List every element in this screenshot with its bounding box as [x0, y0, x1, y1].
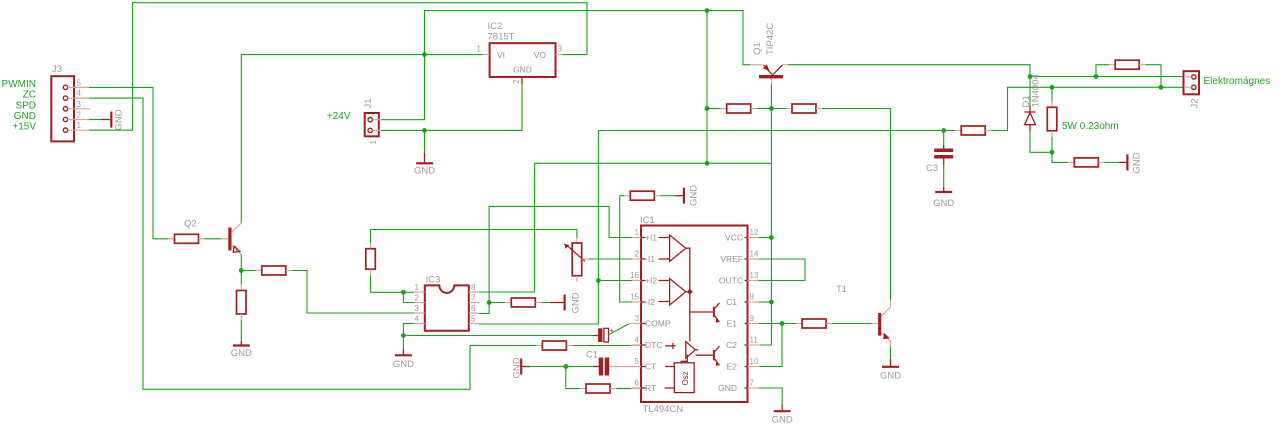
- connector J3: [51, 64, 90, 141]
- svg-text:4: 4: [635, 336, 640, 345]
- wire net A: divider top to trimmer top: [371, 230, 577, 239]
- junction bypass resistor right: [1159, 85, 1164, 90]
- IC1 internal output transistor 1: [713, 303, 720, 323]
- wire VCC to vertical: [759, 237, 772, 239]
- svg-text:GND: GND: [933, 198, 954, 209]
- resistor R (bypass): [1109, 60, 1145, 69]
- svg-text:GND: GND: [513, 65, 532, 75]
- svg-text:GND: GND: [231, 348, 252, 359]
- wire resistor row left: [707, 108, 721, 110]
- IC IC1 TL494CN: [640, 215, 748, 415]
- voltage regulator IC2 7815T: [477, 21, 563, 85]
- junction C1 pin8: [769, 300, 774, 305]
- ground at CT row (rotated, text left): [512, 357, 566, 378]
- svg-text:GND: GND: [512, 357, 523, 378]
- junction 5W resistor top: [1050, 85, 1055, 90]
- wire to IC3 pin3: [292, 271, 414, 314]
- svg-text:1: 1: [77, 121, 82, 130]
- svg-text:VCC: VCC: [725, 233, 743, 243]
- junction D1 top: [1028, 74, 1033, 79]
- resistor R (Q1 base left): [721, 104, 757, 113]
- svg-text:C1: C1: [586, 350, 598, 361]
- connector J2 Elektromagnes: [1184, 71, 1201, 108]
- svg-text:5: 5: [471, 315, 476, 324]
- junction E1: [780, 321, 785, 326]
- svg-text:IC2: IC2: [488, 21, 503, 32]
- ground at Q2: [231, 320, 252, 359]
- resistor R (Q2 base): [169, 234, 222, 243]
- wire Q1 base / VCC vertical: [760, 85, 772, 346]
- IC1 pin names: [645, 233, 743, 394]
- svg-text:GND: GND: [688, 185, 699, 206]
- svg-text:2: 2: [512, 79, 521, 84]
- ground at IC3 pin4: [393, 336, 414, 371]
- junction VCC: [769, 235, 774, 240]
- junction IC3 pin7: [487, 300, 492, 305]
- svg-text:9: 9: [750, 314, 755, 323]
- svg-text:TIP42C: TIP42C: [765, 23, 776, 55]
- svg-text:13: 13: [750, 271, 759, 280]
- svg-text:+15V: +15V: [12, 122, 36, 133]
- junction Q2 emitter: [239, 268, 244, 273]
- svg-text:OUTC: OUTC: [719, 276, 743, 286]
- svg-text:DTC: DTC: [645, 340, 662, 350]
- resistor R (DTC series): [536, 341, 641, 350]
- capacitor COMP (polarized): [594, 324, 633, 343]
- svg-text:1: 1: [635, 228, 640, 237]
- svg-text:VO: VO: [534, 50, 547, 60]
- wire IC3 pin6 up to pin7 junction: [479, 303, 489, 314]
- svg-text:1N4004: 1N4004: [1031, 74, 1042, 107]
- opto IC3: [414, 275, 479, 331]
- IC1 pin nubs: [641, 238, 748, 389]
- svg-text:1: 1: [415, 283, 420, 292]
- resistor 5W 0.23ohm: [1047, 87, 1118, 152]
- wire bypass branch: [1096, 65, 1109, 77]
- IC1 left pin stubs: [632, 238, 641, 389]
- ground at pin15 resistor (rotated): [660, 185, 699, 206]
- svg-text:6: 6: [635, 379, 640, 388]
- IC1 internal DTC comparator: [665, 342, 698, 363]
- svg-text:VREF: VREF: [720, 254, 743, 264]
- junction resistor row at Q1 base: [769, 106, 774, 111]
- wire J2 pin1 row: [1030, 76, 1184, 78]
- transistor T1: [836, 284, 891, 341]
- ground at J3 pin2 (rotated): [89, 109, 125, 130]
- junction +24V top: [705, 8, 710, 13]
- svg-text:-I2: -I2: [645, 297, 655, 307]
- ground at C3: [933, 187, 954, 209]
- svg-text:14: 14: [750, 250, 759, 259]
- wire VREF to OUTC loop: [759, 259, 806, 281]
- svg-text:GND: GND: [114, 109, 125, 130]
- wire IC1 GND pin7: [759, 388, 783, 405]
- connector J1: [363, 98, 381, 144]
- wire +24V: J1 pin1 up and along top to Q1 emitter: [381, 11, 750, 120]
- svg-text:6: 6: [471, 304, 476, 313]
- wire down to bottom-right GND resistor: [1052, 152, 1068, 162]
- svg-text:PWMIN: PWMIN: [2, 79, 36, 90]
- wire Q2 collector up to IC2 VI line: [241, 55, 482, 223]
- wire divider to IC3 pins 1,2: [371, 275, 415, 292]
- wire IC3 pin8 handled above; wire IC3 pin7 row: [489, 302, 505, 304]
- junction +24V at y163 line: [705, 161, 710, 166]
- svg-text:3: 3: [415, 304, 420, 313]
- svg-text:+I1: +I1: [645, 233, 657, 243]
- svg-text:11: 11: [750, 336, 759, 345]
- capacitor C3: [926, 131, 953, 188]
- junction CT row: [563, 364, 568, 369]
- svg-text:2: 2: [415, 294, 420, 303]
- svg-text:12: 12: [750, 228, 759, 237]
- transistor Q2: [184, 219, 241, 255]
- svg-text:4: 4: [415, 315, 420, 324]
- svg-text:GND: GND: [14, 111, 36, 122]
- svg-text:C1: C1: [726, 297, 737, 307]
- svg-text:J3: J3: [52, 64, 62, 75]
- resistor R (Q2 emitter to GND): [237, 271, 247, 321]
- wire IC1 pin16 row: [598, 280, 632, 282]
- svg-text:ZC: ZC: [23, 90, 36, 101]
- resistor R (RT): [580, 384, 641, 393]
- ground at IC1 pin7: [772, 405, 793, 426]
- svg-text:GND: GND: [772, 414, 793, 425]
- svg-text:VI: VI: [497, 50, 505, 60]
- wire C1 pin8 to vertical: [759, 301, 772, 303]
- junction 5W resistor bottom: [1050, 150, 1055, 155]
- IC1 internal oscillator box: [665, 363, 695, 393]
- svg-text:10: 10: [750, 357, 759, 366]
- svg-text:GND: GND: [718, 383, 737, 393]
- wire between resistors: [757, 108, 786, 110]
- wire IC3 pin4 to GND junction: [403, 324, 414, 336]
- svg-text:4: 4: [77, 89, 82, 98]
- junction IC3 pin4 gnd: [401, 333, 406, 338]
- svg-text:Osz: Osz: [681, 371, 690, 385]
- transistor Q1 TIP42C: [751, 23, 789, 85]
- svg-text:5W 0.23ohm: 5W 0.23ohm: [1062, 121, 1119, 132]
- junction IC1 pin16: [596, 278, 601, 283]
- resistor R (Q2 emitter series): [241, 266, 291, 275]
- svg-text:5: 5: [77, 78, 82, 87]
- svg-text:5: 5: [635, 357, 640, 366]
- IC1 internal output transistor 2: [713, 346, 720, 366]
- trimmer (potentiometer): [564, 238, 589, 281]
- wire E2 up to E1 junction: [760, 324, 782, 367]
- wire E1 to resistor: [759, 323, 797, 325]
- svg-text:1: 1: [477, 45, 482, 54]
- wire +15V: J3 pin1 up over top to IC2 VO: [89, 3, 587, 131]
- IC1 right pin stubs: [748, 238, 760, 389]
- wire sense rail up to J2 pin2 row: [991, 87, 1184, 130]
- wire trimmer wiper to IC1 pin2: [589, 258, 632, 260]
- svg-text:8: 8: [471, 283, 476, 292]
- svg-text:C2: C2: [726, 340, 737, 350]
- wire +24V branch down to resistor row: [706, 11, 708, 164]
- wire IC3 pin7 net up and across to IC1 pin1: [489, 206, 632, 302]
- svg-text:7: 7: [750, 379, 755, 388]
- wire bypass to pin2 row: [1145, 65, 1161, 88]
- wire ZC: J3 pin4 down along bottom to DTC row: [89, 98, 536, 389]
- svg-text:TL494CN: TL494CN: [643, 404, 684, 415]
- svg-text:8: 8: [750, 293, 755, 302]
- ground at IC3 pin7 row (rotated): [541, 292, 581, 313]
- wire gnd row to COMP capacitor: [403, 335, 598, 337]
- wire T1 emitter down: [890, 341, 892, 347]
- svg-text:Elektromágnes: Elektromágnes: [1204, 76, 1271, 87]
- junction resistor row at +24V vertical: [705, 106, 710, 111]
- svg-text:7815T: 7815T: [488, 32, 515, 43]
- junction C3 top: [941, 128, 946, 133]
- svg-text:CT: CT: [645, 362, 656, 372]
- wire IC3 pin5 to sense rail vertical: [479, 131, 599, 325]
- svg-text:GND: GND: [880, 371, 901, 382]
- wire y163 line to IC3 pin8: [479, 163, 772, 292]
- ground bottom-right (rotated): [1104, 152, 1142, 173]
- svg-text:J1: J1: [363, 98, 374, 108]
- junction bypass resistor left: [1094, 74, 1099, 79]
- IC1 internal comparators: [659, 235, 713, 355]
- ground at T1: [880, 359, 901, 382]
- svg-text:GND: GND: [570, 292, 581, 313]
- svg-text:Q2: Q2: [184, 219, 197, 230]
- wire Q2 emitter: [240, 255, 242, 271]
- svg-text:-I1: -I1: [645, 254, 655, 264]
- svg-text:E1: E1: [727, 319, 738, 329]
- resistor R (IC3 pin7 to GND): [505, 298, 541, 307]
- svg-text:16: 16: [630, 271, 639, 280]
- wire resistor row to T1 collector: [822, 109, 891, 301]
- IC1 pin numbers right: [750, 228, 759, 388]
- svg-text:RT: RT: [645, 383, 656, 393]
- svg-text:C3: C3: [926, 163, 938, 174]
- svg-text:IC1: IC1: [640, 215, 655, 226]
- wire J1 pin2 to IC2 GND pin2: [381, 85, 522, 131]
- svg-text:3: 3: [635, 314, 640, 323]
- resistor R (Q1 base right): [786, 104, 822, 113]
- svg-text:COMP: COMP: [645, 319, 671, 329]
- resistor R (sense filter): [955, 126, 991, 135]
- wire sense rail: [598, 130, 955, 132]
- svg-text:SPD: SPD: [15, 100, 36, 111]
- wire PWMIN: J3 pin5 to Q2 base resistor: [89, 87, 169, 238]
- ground at J1/IC2: [414, 130, 435, 176]
- svg-text:+24V: +24V: [327, 111, 351, 122]
- resistor R (divider upper): [366, 230, 376, 276]
- wire Q1 collector to J2 row: [788, 65, 1030, 77]
- svg-text:T1: T1: [836, 284, 847, 295]
- svg-text:Q1: Q1: [752, 42, 763, 55]
- svg-text:2: 2: [635, 250, 640, 259]
- svg-text:15: 15: [630, 293, 639, 302]
- resistor R (to GND, bottom right): [1068, 158, 1104, 167]
- svg-text:+I2: +I2: [645, 276, 657, 286]
- IC1 pin numbers left: [630, 228, 639, 388]
- svg-text:2: 2: [77, 111, 82, 120]
- svg-text:1: 1: [369, 140, 378, 145]
- svg-text:GND: GND: [1131, 152, 1142, 173]
- svg-text:J2: J2: [1190, 98, 1201, 108]
- junction at IC2 VI / +24V vertical: [422, 52, 427, 57]
- svg-text:7: 7: [471, 294, 476, 303]
- svg-text:3: 3: [558, 45, 563, 54]
- svg-text:GND: GND: [414, 166, 435, 177]
- junction IC3 pin1/2: [401, 290, 406, 295]
- svg-text:3: 3: [77, 100, 82, 109]
- resistor R (E1 to T1 base): [796, 319, 879, 328]
- svg-text:GND: GND: [393, 359, 414, 370]
- capacitor C1: [566, 350, 641, 376]
- svg-text:E2: E2: [727, 362, 738, 372]
- wire CT junction down to RT row: [566, 367, 580, 389]
- resistor R (pin15 to GND): [620, 191, 661, 302]
- diode D1 1N4004: [1021, 74, 1052, 152]
- junction at J1 pin2 GND: [422, 128, 427, 133]
- svg-text:IC3: IC3: [426, 275, 441, 286]
